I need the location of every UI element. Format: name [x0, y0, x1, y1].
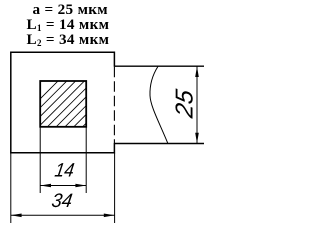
- svg-text:14: 14: [53, 158, 76, 180]
- svg-text:25: 25: [172, 87, 199, 120]
- svg-text:34: 34: [50, 191, 74, 212]
- svg-text:L2 = 34 мкм: L2 = 34 мкм: [27, 31, 110, 48]
